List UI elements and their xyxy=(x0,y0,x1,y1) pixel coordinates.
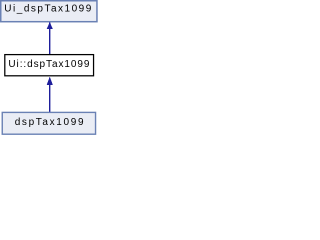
class box Ui::dspTax1099 xyxy=(5,55,94,76)
inheritance arrow: Ui::dspTax1099 -> Ui_dspTax1099 xyxy=(47,22,53,55)
inheritance arrow: dspTax1099 -> Ui::dspTax1099 xyxy=(47,77,53,113)
svg-text:dspTax1099: dspTax1099 xyxy=(15,117,84,128)
svg-text:Ui::dspTax1099: Ui::dspTax1099 xyxy=(8,59,89,70)
class box Ui_dspTax1099 xyxy=(1,1,97,22)
svg-text:Ui_dspTax1099: Ui_dspTax1099 xyxy=(4,4,91,15)
class box dspTax1099 xyxy=(2,112,95,134)
